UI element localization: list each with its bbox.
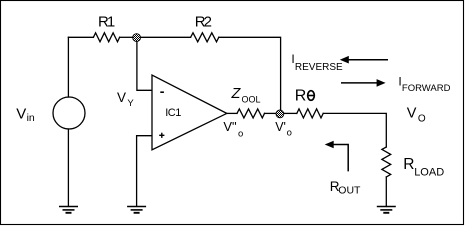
svg-text:OUT: OUT (338, 184, 361, 196)
node at R1/R2 junction (133, 34, 141, 42)
svg-text:IC1: IC1 (165, 107, 181, 119)
ground (R_LOAD) (377, 207, 396, 213)
svg-text:V': V' (275, 120, 286, 134)
wire top rail left (68, 36, 93, 38)
svg-text:Z: Z (231, 86, 242, 102)
svg-text:O: O (418, 114, 426, 125)
resistor R1 (93, 33, 119, 42)
svg-text:V: V (117, 90, 126, 105)
wire Z_OOL to node (265, 112, 277, 114)
resistor R_LOAD (382, 147, 391, 177)
source Vin circle (53, 97, 85, 129)
svg-text:OOL: OOL (242, 95, 261, 105)
wire non-inverting input down to ground (137, 136, 152, 207)
svg-text:V: V (16, 105, 26, 122)
op-amp plus sign (159, 133, 164, 138)
op-amp minus sign (160, 91, 164, 93)
wire node to R2 (140, 36, 190, 38)
arrow I_REVERSE (340, 56, 388, 64)
svg-text:V": V" (223, 119, 237, 134)
svg-text:FORWARD: FORWARD (402, 83, 451, 94)
wire R1 to node (120, 36, 133, 38)
svg-text:R2: R2 (195, 14, 212, 31)
resistor R-theta (297, 109, 323, 118)
svg-text:REVERSE: REVERSE (295, 62, 343, 73)
node Vo' (276, 110, 284, 118)
wire Vin branch lower (67, 129, 69, 206)
wire R-theta to corner and down (323, 113, 386, 147)
svg-text:o: o (287, 128, 292, 139)
arrow I_FORWARD (341, 79, 386, 87)
svg-text:o: o (238, 128, 243, 139)
svg-text:V: V (407, 105, 417, 121)
svg-text:R1: R1 (98, 14, 115, 31)
wire Vin branch upper (67, 37, 69, 97)
wire R2 to corner and down to node Vo' (219, 37, 281, 110)
op-amp IC1 triangle (152, 75, 227, 150)
svg-text:in: in (27, 112, 35, 124)
wire node to inverting input (137, 41, 152, 90)
svg-text:R: R (403, 156, 414, 173)
resistor Z_OOL (237, 109, 265, 118)
wire op-amp output (227, 112, 237, 114)
wire R_LOAD to ground (385, 177, 387, 206)
arrow R_OUT (325, 141, 349, 172)
svg-text:R: R (295, 88, 307, 105)
svg-text:LOAD: LOAD (414, 166, 444, 178)
svg-text:Y: Y (127, 98, 134, 109)
ground (Vin) (59, 207, 78, 213)
wire node to R-theta (284, 112, 297, 114)
ground (op-amp +) (127, 207, 146, 213)
resistor R2 (191, 33, 219, 42)
